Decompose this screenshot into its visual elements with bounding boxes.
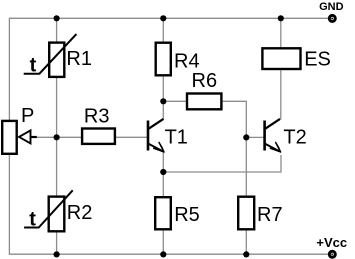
svg-text:R6: R6 [192, 70, 218, 92]
svg-text:GND: GND [319, 1, 344, 13]
svg-text:R1: R1 [66, 48, 92, 70]
svg-text:R7: R7 [257, 204, 283, 226]
svg-text:P: P [21, 105, 34, 127]
svg-text:ES: ES [304, 49, 331, 71]
svg-text:R5: R5 [174, 204, 200, 226]
svg-text:+Vcc: +Vcc [316, 235, 347, 250]
svg-text:t: t [29, 208, 36, 230]
svg-text:R2: R2 [67, 202, 93, 224]
svg-text:t: t [30, 54, 37, 76]
svg-text:T1: T1 [165, 126, 188, 148]
svg-text:T2: T2 [283, 127, 306, 149]
svg-text:R3: R3 [84, 106, 110, 128]
svg-text:R4: R4 [174, 50, 200, 72]
